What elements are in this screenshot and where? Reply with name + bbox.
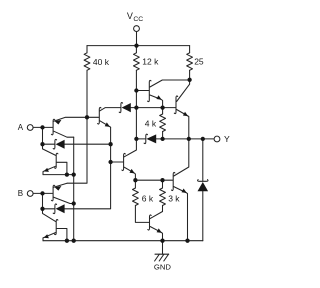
svg-text:40 k: 40 k bbox=[93, 57, 110, 67]
svg-text:25: 25 bbox=[194, 57, 204, 67]
svg-text:B: B bbox=[18, 189, 23, 198]
svg-text:12 k: 12 k bbox=[142, 57, 159, 67]
svg-text:V: V bbox=[127, 11, 133, 21]
svg-text:A: A bbox=[18, 123, 24, 132]
svg-text:GND: GND bbox=[154, 263, 172, 272]
svg-text:3 k: 3 k bbox=[168, 193, 180, 203]
svg-text:4 k: 4 k bbox=[145, 118, 157, 128]
svg-text:Y: Y bbox=[224, 134, 230, 144]
svg-text:CC: CC bbox=[133, 16, 143, 23]
svg-text:6 k: 6 k bbox=[142, 193, 154, 203]
